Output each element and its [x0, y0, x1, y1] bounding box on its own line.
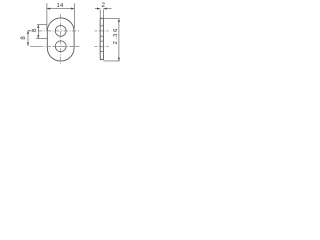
svg-text:8: 8 — [32, 29, 38, 32]
left inner dim arrow bottom — [37, 35, 39, 38]
dim 2 arrow left — [97, 8, 100, 10]
dim 14 extension line left — [46, 3, 48, 30]
side view rectangle — [100, 18, 103, 59]
side view lower center line — [95, 45, 109, 47]
hidden line lower hole top — [100, 40, 104, 42]
svg-text:3: 3 — [113, 34, 119, 37]
left inner dim ext top — [37, 24, 47, 26]
dim 14 line — [47, 8, 74, 10]
svg-text:2: 2 — [101, 2, 105, 9]
lower hole — [55, 41, 66, 52]
dim 23.6 ext top — [104, 18, 120, 20]
svg-text:14: 14 — [56, 3, 64, 9]
svg-text:.: . — [113, 38, 119, 40]
hidden line upper hole bottom — [100, 35, 104, 37]
dim 14 extension line right — [73, 3, 75, 29]
dim 23.6 line — [118, 19, 120, 61]
dim 2 line right — [103, 8, 111, 10]
left inner dim line — [37, 25, 39, 39]
lower hole center line — [30, 45, 80, 47]
vertical center line — [60, 14, 62, 64]
dim 23.6 ext bottom — [103, 60, 119, 62]
dim 2 ext right — [102, 10, 104, 19]
left outer dim arrow top — [27, 31, 29, 34]
dim 23.6 arrow top — [118, 19, 120, 22]
svg-text:6: 6 — [113, 29, 119, 32]
upper hole — [55, 26, 66, 37]
dim 14 arrow right — [71, 8, 74, 10]
svg-text:8: 8 — [21, 36, 27, 40]
dim 23.6 label (rotated) — [113, 29, 119, 45]
side view upper center line — [95, 30, 109, 32]
hidden line lower hole bottom — [100, 51, 104, 53]
upper hole center line — [30, 30, 80, 32]
left inner dim ext bottom — [36, 38, 48, 40]
svg-text:2: 2 — [113, 41, 119, 44]
dim 2 arrow right — [103, 8, 106, 10]
dim 14 arrow left — [47, 8, 50, 10]
front view stadium outline — [47, 18, 74, 61]
left inner dim arrow top — [37, 25, 39, 28]
left outer dim arrow bottom — [27, 43, 29, 46]
dim 23.6 arrow bottom — [118, 58, 120, 61]
hidden line upper hole top — [100, 25, 104, 27]
left outer dim line — [27, 31, 29, 46]
dim 2 line left — [95, 8, 100, 10]
dim 2 ext left — [99, 10, 101, 19]
left outer dim top tick — [28, 30, 30, 32]
